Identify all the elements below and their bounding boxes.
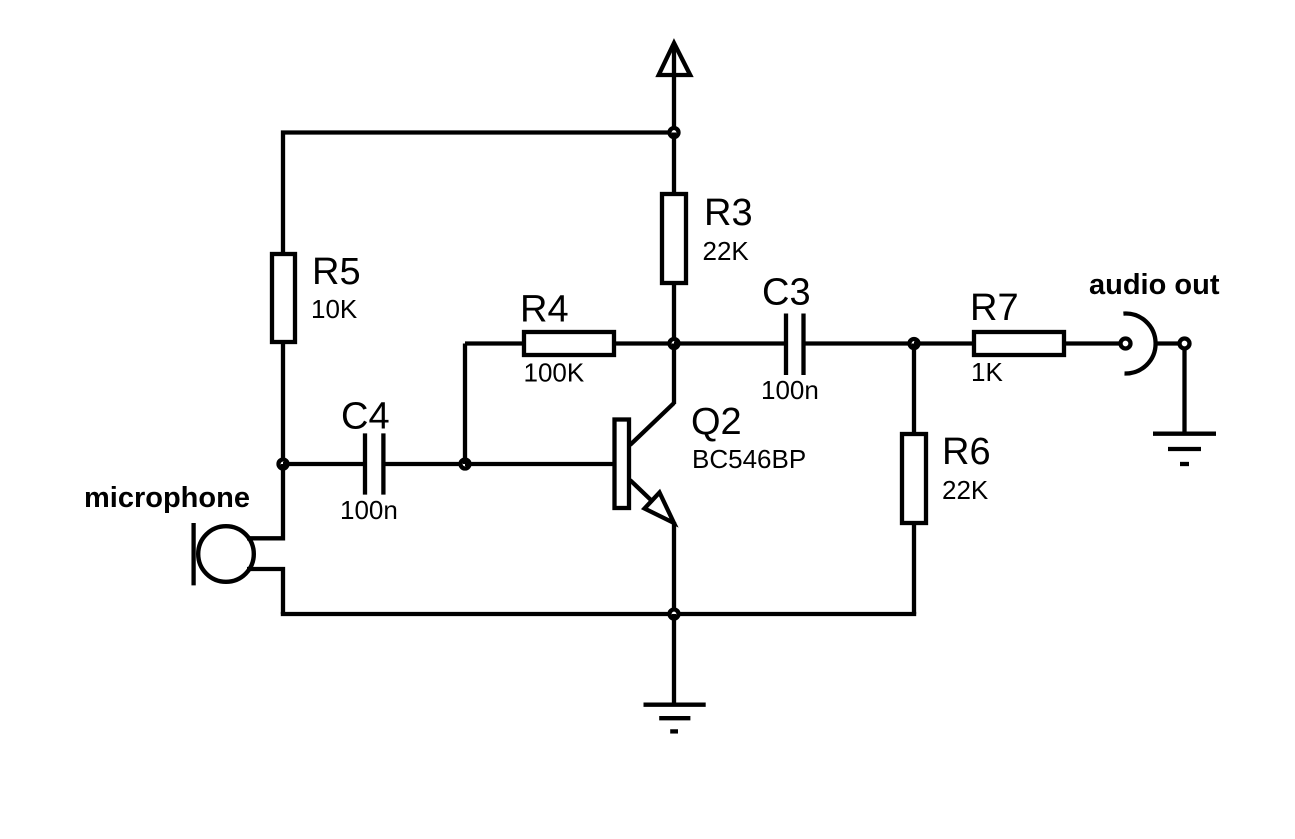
wire base node to transistor [465, 462, 613, 466]
wire bottom rail [281, 612, 916, 616]
wire ground drop [672, 614, 676, 705]
svg-text:10K: 10K [311, 294, 358, 324]
svg-text:100K: 100K [524, 358, 585, 388]
capacitor C3 [761, 272, 819, 406]
resistor R5 [272, 251, 361, 342]
wire jack to sleeve pin [1156, 341, 1180, 345]
jack tip pin [1121, 339, 1131, 349]
wire sleeve to ground [1182, 349, 1186, 434]
svg-text:100n: 100n [761, 375, 819, 405]
ground output [1153, 434, 1216, 464]
svg-text:R5: R5 [312, 251, 361, 293]
node base [461, 460, 470, 469]
wire to R4 [465, 341, 524, 345]
wire C4 to base node [385, 462, 465, 466]
wire R4 to collector node [614, 341, 674, 345]
wire R3 bottom [672, 283, 676, 344]
jack sleeve pin [1180, 339, 1190, 349]
wire mic top stub [247, 464, 283, 538]
svg-text:microphone: microphone [84, 482, 250, 514]
wire input to C4 [283, 462, 363, 466]
svg-text:22K: 22K [942, 475, 989, 505]
ground main [644, 705, 706, 732]
wire R7 to jack [1066, 341, 1120, 345]
svg-text:C4: C4 [341, 396, 390, 438]
svg-text:R7: R7 [970, 287, 1019, 329]
svg-text:C3: C3 [762, 272, 811, 314]
wire mic bottom stub [247, 569, 283, 614]
node junction V+ [670, 128, 679, 137]
transistor Q2 [615, 344, 807, 615]
resistor R6 [902, 431, 991, 523]
wire R5 bottom [281, 344, 285, 464]
microphone [84, 482, 254, 585]
resistor R3 [662, 192, 753, 283]
resistor R7 [970, 287, 1064, 387]
wire R3 top [672, 133, 676, 197]
svg-text:audio out: audio out [1089, 269, 1220, 301]
svg-text:R3: R3 [704, 192, 753, 234]
svg-text:100n: 100n [340, 495, 398, 525]
node collector [670, 339, 679, 348]
wire collector to C3 [674, 341, 784, 345]
wire C3 to output node [806, 341, 915, 345]
svg-text:22K: 22K [703, 236, 750, 266]
node emitter ground [670, 610, 679, 619]
jack arc [1123, 314, 1155, 374]
wire R6 bottom [912, 523, 916, 614]
wire output to R7 [914, 341, 974, 345]
resistor R4 [520, 289, 614, 388]
svg-text:1K: 1K [971, 357, 1003, 387]
wire top rail [283, 133, 674, 257]
wire R6 top [912, 344, 916, 437]
svg-text:R6: R6 [942, 431, 991, 473]
capacitor C4 [340, 396, 398, 526]
svg-text:Q2: Q2 [691, 401, 742, 443]
power supply arrow [659, 43, 691, 133]
svg-text:R4: R4 [520, 289, 569, 331]
node input [279, 460, 288, 469]
wire feedback vertical [463, 344, 467, 465]
node output [910, 339, 919, 348]
svg-text:BC546BP: BC546BP [692, 444, 806, 474]
